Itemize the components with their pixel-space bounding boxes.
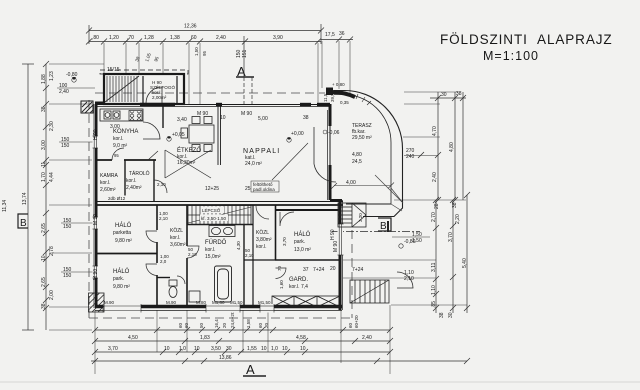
door gap kozl wall lower [156,263,159,275]
svg-text:16,4: 16,4 [214,319,219,328]
svg-text:4,44: 4,44 [49,172,55,182]
svg-text:KÖZL: KÖZL [256,229,269,236]
svg-text:13,0 m²: 13,0 m² [294,247,311,253]
dimension chain bottom third [92,349,393,355]
interior wall kozl2 right [275,205,277,260]
svg-text:2,40m²: 2,40m² [126,185,142,191]
partition column etkezo nappali [218,104,221,165]
svg-text:2,0: 2,0 [160,259,167,264]
svg-text:3,70: 3,70 [448,232,454,242]
interior wall kozl2 left [252,205,254,306]
room label SZELFOGO [150,80,175,100]
svg-text:B: B [20,218,27,229]
big X opening marker between etkezo and hall [165,150,211,178]
bottom wall window furdo [206,304,240,313]
svg-text:1,55: 1,55 [247,346,257,352]
svg-text:10: 10 [282,346,288,352]
svg-text:+ 0,80: + 0,80 [332,82,345,87]
svg-text:+0,00: +0,00 [291,131,304,137]
svg-text:2,30: 2,30 [157,182,166,187]
svg-text:60: 60 [348,322,353,328]
svg-text:kor.l.: kor.l. [113,136,124,142]
dimension labels bottom third [108,346,306,352]
gard wardrobe x-box [272,296,340,307]
section marker A top [236,36,254,104]
svg-text:H 90: H 90 [93,129,99,140]
room label KOZL [170,227,186,248]
window gap right wall halo13 [338,224,344,255]
window gap left wall bedroom2 [93,266,99,278]
szelfogo door arc [146,87,162,103]
stair label dims [200,215,228,222]
extension lines left chains to wall [49,64,104,330]
svg-text:1,83: 1,83 [200,335,210,341]
dimension labels left second rotated [49,71,55,300]
interior wall furdo right [243,225,245,306]
small rotated dims above annex [134,47,207,63]
svg-text:17,5: 17,5 [325,32,335,38]
svg-text:13,86: 13,86 [219,355,232,361]
svg-text:kor.l. 7,4: kor.l. 7,4 [289,284,308,290]
svg-text:95: 95 [202,50,207,56]
svg-text:4,80: 4,80 [352,152,362,158]
svg-text:B: B [380,221,387,232]
taroló door arc [154,180,167,193]
svg-text:39,5: 39,5 [330,93,335,102]
svg-text:2,00: 2,00 [49,290,55,300]
svg-text:150: 150 [61,143,70,149]
terrace dim line 4,00 [331,183,394,190]
svg-text:M.90: M.90 [166,300,177,305]
svg-text:9,0 m²: 9,0 m² [113,143,128,149]
eave dashed line left [88,100,90,318]
window label 150/150 left lower [61,267,95,279]
svg-text:2,70: 2,70 [431,212,437,222]
svg-text:38: 38 [452,202,458,208]
svg-text:1,58: 1,58 [246,319,251,328]
outer wall right lower block [330,200,343,310]
exterior stair bottom right [350,280,389,303]
svg-text:1,28: 1,28 [144,35,154,41]
label 2db o12 [107,196,127,202]
svg-text:KONYHA: KONYHA [113,129,138,135]
svg-text:2,20: 2,20 [455,214,461,224]
door arc right entry [397,272,413,288]
terrace arc wall start thick [333,92,355,97]
svg-text:10: 10 [194,346,200,352]
konyha door arc [143,122,160,139]
svg-text:30: 30 [441,92,447,98]
dimension labels top detail row [92,35,283,41]
door label 100/210 bedroom [160,254,169,264]
terrace arc hatch ticks [356,94,371,105]
level mark -0,06 terasz [323,130,340,136]
svg-text:HÁLÓ: HÁLÓ [294,231,311,238]
svg-text:38: 38 [439,312,445,318]
svg-text:3,70: 3,70 [282,237,287,246]
window label 270/240 right [403,137,440,160]
wall halo13 top [275,209,340,211]
svg-text:A: A [246,362,255,377]
door arc halo13 [280,212,294,226]
section marker B left [18,214,28,229]
svg-text:2,65: 2,65 [41,223,47,233]
interior wall bedroom divider [95,253,157,255]
outer wall left [81,101,96,308]
svg-text:2,60m²: 2,60m² [100,187,116,193]
dimension chain bottom second [92,338,393,344]
room label TAROLO [126,170,150,191]
svg-text:3,60m²: 3,60m² [170,242,186,248]
svg-text:4,00: 4,00 [346,180,356,186]
pointer line to feltoltheto label [272,143,308,180]
svg-text:M=1:100: M=1:100 [483,49,539,63]
svg-text:20: 20 [222,322,227,328]
outer wall top [95,103,330,107]
section B tick bar [387,221,389,232]
door arc bedroom2 [146,264,157,276]
room label FURDO [205,239,227,260]
svg-text:5,40: 5,40 [462,258,468,268]
window label 150/150 left mid [61,218,95,230]
section marker B right [378,218,391,232]
dimension mini chain 17,5 36 [321,37,353,43]
door arc kozl2 top [256,206,269,219]
svg-text:10: 10 [261,346,267,352]
svg-text:park.: park. [113,276,124,282]
svg-text:2,40: 2,40 [216,35,226,41]
svg-text:kor.l.: kor.l. [205,247,216,253]
room label KOZL2 [256,229,272,250]
room label HALO right [294,231,311,253]
svg-text:kor.l.: kor.l. [256,244,267,250]
terrace wall end filled [326,88,333,96]
label 110/210 right door [404,270,414,282]
interior wall kozl left [156,205,158,306]
svg-text:1,0: 1,0 [271,346,278,352]
svg-text:1,38: 1,38 [170,35,180,41]
svg-text:150: 150 [63,224,72,230]
svg-text:-0,80: -0,80 [66,72,78,78]
kitchen counter [100,109,143,121]
door gap furdo wall [186,246,189,258]
svg-text:2,10: 2,10 [188,252,197,257]
svg-text:ÉTKEZŐ: ÉTKEZŐ [177,147,201,154]
svg-text:12+25: 12+25 [205,186,219,192]
dimension labels left inner rotated [41,74,47,309]
level mark -0,80 left [66,72,78,82]
svg-text:M.90: M.90 [104,300,115,305]
room label KONYHA [113,129,138,149]
svg-text:TÁROLÓ: TÁROLÓ [129,170,150,177]
svg-text:10: 10 [220,115,226,121]
level mark -0,80 right [399,239,416,248]
dimension chain left inner [43,61,49,330]
section marker A bottom [243,362,266,377]
svg-text:4,30: 4,30 [236,241,241,250]
dining table [181,117,214,152]
svg-text:3,90: 3,90 [273,35,283,41]
rotated labels terrace arc start [323,93,335,102]
svg-text:1,50: 1,50 [194,47,199,56]
dimension labels right lower [431,212,468,318]
door arc gard [276,268,287,279]
pillar hatch left [82,102,93,113]
spine wall horizontal [95,202,343,206]
svg-text:M.80: M.80 [196,300,207,305]
svg-text:30: 30 [448,312,454,318]
room label HALO upper left [113,222,132,244]
svg-text:M1,80: M1,80 [212,300,225,305]
svg-text:240: 240 [406,154,415,160]
svg-text:2,30: 2,30 [49,121,55,131]
door arc wc [177,276,185,284]
svg-text:3,11: 3,11 [431,262,437,272]
svg-text:24,6+20: 24,6+20 [230,311,235,328]
svg-text:kf. 3,50·1,50: kf. 3,50·1,50 [201,216,227,221]
faint scan fold line [0,381,640,383]
svg-text:park.: park. [294,239,305,245]
svg-text:kor.l.: kor.l. [100,180,111,186]
svg-text:38: 38 [41,303,47,309]
svg-text:padl.oldina: padl.oldina [253,187,275,192]
door label 100/210 kozl [159,211,168,221]
outer wall right upper [328,104,331,200]
left wall hatch bottom corner [89,293,105,312]
room label GARD [289,277,308,290]
svg-text:FÜRDŐ: FÜRDŐ [205,239,227,246]
svg-text:M 90: M 90 [197,111,208,117]
door label 50/210 furdo [188,247,197,257]
svg-text:parketta: parketta [113,230,131,236]
svg-text:1,10: 1,10 [431,285,437,295]
svg-text:3,20: 3,20 [358,213,363,222]
dimension chain right upper [430,92,466,203]
svg-text:11,5: 11,5 [323,93,328,102]
svg-text:10: 10 [300,346,306,352]
svg-text:+0,05: +0,05 [172,132,185,138]
svg-text:11: 11 [41,162,47,167]
svg-text:2,40: 2,40 [362,335,372,341]
svg-text:4,50: 4,50 [128,335,138,341]
svg-text:1,0: 1,0 [179,346,186,352]
svg-text:150: 150 [63,273,72,279]
level mark +0,05 etkezo [167,132,185,141]
svg-text:kor.l.: kor.l. [126,178,137,184]
svg-text:3,70: 3,70 [108,346,118,352]
svg-text:13,74: 13,74 [22,192,28,205]
svg-text:M1,50: M1,50 [258,300,271,305]
kitchen stove symbol [129,111,142,121]
terrace bottom edge [346,203,391,205]
svg-text:HÁLÓ: HÁLÓ [115,222,132,229]
svg-text:GARD.: GARD. [289,277,308,283]
terrace dim labels 480 245 [352,152,362,165]
svg-text:NAPPALI: NAPPALI [243,148,280,155]
svg-text:2,10: 2,10 [159,216,168,221]
extension lines right chains [343,92,467,305]
dimension chain top detail ticks [86,39,321,45]
svg-text:60: 60 [178,322,183,328]
svg-text:M1,50: M1,50 [230,300,243,305]
dimension chain top total 12,36 [86,24,324,44]
svg-text:0,35: 0,35 [340,100,349,105]
window label 150/150 right [392,232,430,244]
window label 150/150 left upper [59,137,95,149]
svg-text:4,58: 4,58 [296,335,306,341]
svg-text:H 90: H 90 [330,229,336,240]
svg-text:3,50: 3,50 [211,346,221,352]
svg-text:95: 95 [114,153,119,158]
dimension labels right top small [434,202,458,209]
svg-text:10: 10 [164,346,170,352]
svg-text:24,0 m²: 24,0 m² [245,161,262,167]
kamra door arc [112,148,124,160]
svg-text:3,40: 3,40 [177,117,187,123]
door label 50/210 kozl2 [245,248,254,258]
extension lines bottom chains [95,305,390,374]
outer wall bottom [95,307,342,311]
svg-text:5,00: 5,00 [258,116,268,122]
svg-text:-0,06: -0,06 [328,130,340,136]
svg-text:2,10: 2,10 [245,253,254,258]
terrace door leaf and arc [314,127,336,182]
terrace outer edge with rounded corner [334,90,403,216]
svg-text:37: 37 [303,267,309,273]
toilet wc [169,280,177,298]
eave dashed line right lower [351,230,353,318]
svg-text:16,30m²: 16,30m² [177,160,196,166]
dimension chain bottom first [92,327,393,333]
svg-text:KÖZL: KÖZL [170,227,183,234]
bathtub [215,266,232,302]
bottom wall window lower halo [103,304,141,313]
washing machine [189,291,200,302]
dimension labels bottom second [128,335,372,341]
interior wall kozl2 bottom [244,259,275,261]
svg-text:2,40: 2,40 [59,89,69,95]
svg-text:1,70: 1,70 [41,172,47,182]
dimension chain left outer total 13,74 [22,64,34,330]
svg-text:24,5: 24,5 [352,159,362,165]
svg-text:3,80m²: 3,80m² [256,237,272,243]
room label HALO lower left [113,268,130,290]
svg-text:15/15: 15/15 [107,67,120,73]
terrace inner edge [334,94,391,204]
interior wall furdo left [186,205,188,306]
svg-text:7+24: 7+24 [313,267,324,273]
svg-text:2,10: 2,10 [404,276,414,282]
svg-text:60+20: 60+20 [354,315,359,328]
svg-text:1,60: 1,60 [279,280,284,289]
svg-text:10: 10 [41,255,47,261]
interior wall furdo top [187,224,253,226]
door arc furdo [187,246,199,258]
svg-text:9,80 m²: 9,80 m² [113,284,130,290]
svg-text:38: 38 [456,91,462,97]
eave dashed line top [95,92,325,94]
interior wall taroló right [153,160,155,202]
svg-text:11,34: 11,34 [2,200,8,212]
interior wall pantry top [95,159,156,161]
svg-text:kor.l.: kor.l. [170,235,181,241]
room label TERASZ [352,123,372,141]
svg-text:38: 38 [303,115,309,121]
svg-text:KAMRA: KAMRA [100,173,118,179]
svg-text:2,40: 2,40 [432,172,438,182]
svg-text:,80: ,80 [92,35,99,41]
room label NAPPALI [243,148,280,167]
bathroom sinks [209,226,235,237]
svg-text:38: 38 [41,106,47,112]
section line B dash-dot right [332,231,420,233]
svg-text:1,50: 1,50 [412,238,422,244]
svg-text:M 90: M 90 [93,214,99,225]
svg-text:4,80: 4,80 [449,142,455,152]
dimension labels bottom first rotated [178,311,359,328]
door arc bedroom1 [146,231,157,243]
stair label LEPCSO [201,207,224,214]
interior wall pantry divider [124,160,126,202]
svg-text:60: 60 [191,35,197,41]
dimension chain bottom total [91,358,470,364]
svg-text:2db Ø12: 2db Ø12 [108,196,126,201]
svg-text:M 90: M 90 [93,269,99,280]
svg-text:20: 20 [330,266,336,272]
dimension labels mini chain [325,31,345,38]
dimension labels right upper [432,91,462,182]
room label ETKEZO [177,147,201,166]
room label KAMRA [100,173,118,193]
svg-text:2,78: 2,78 [49,246,55,256]
svg-text:,85: ,85 [431,301,437,308]
svg-text:151: 151 [242,49,248,58]
window gap left wall bedroom1 [93,217,99,229]
svg-text:60: 60 [184,322,189,328]
extension lines from top chain down to building [104,41,350,104]
svg-text:20: 20 [264,322,269,328]
wc niche wall [157,277,170,279]
svg-text:60: 60 [258,322,263,328]
svg-text:36: 36 [339,31,345,37]
svg-text:LÉPCSŐ: LÉPCSŐ [202,207,221,213]
interior wall konyha right [162,104,164,128]
svg-text:,70: ,70 [127,35,134,41]
szelfogo room wall [143,76,177,104]
svg-text:1,88: 1,88 [41,74,47,84]
label feltoltheto padloaldina [251,181,279,192]
svg-text:HÁLÓ: HÁLÓ [113,268,130,275]
level mark +0,00 nappali [287,131,304,142]
svg-text:28: 28 [434,203,440,209]
svg-text:4,70: 4,70 [432,126,438,136]
svg-text:12,36: 12,36 [184,24,197,30]
svg-text:2,00m²: 2,00m² [152,95,167,100]
svg-text:FÖLDSZINTI ALAPRAJZ: FÖLDSZINTI ALAPRAJZ [440,32,613,47]
svg-text:15,0m²: 15,0m² [205,254,221,260]
annex stair treads [105,76,139,102]
svg-text:50: 50 [199,322,204,328]
bottom wall window kozl2 [260,304,274,313]
svg-text:1,20: 1,20 [109,35,119,41]
svg-text:3,00: 3,00 [41,140,47,150]
window gap left wall konyha [93,136,99,148]
svg-text:2,65: 2,65 [41,277,47,287]
svg-text:30: 30 [226,346,232,352]
terrace small steps [338,203,366,227]
svg-text:M 90: M 90 [241,111,252,117]
eave dashed line bottom [89,317,352,319]
